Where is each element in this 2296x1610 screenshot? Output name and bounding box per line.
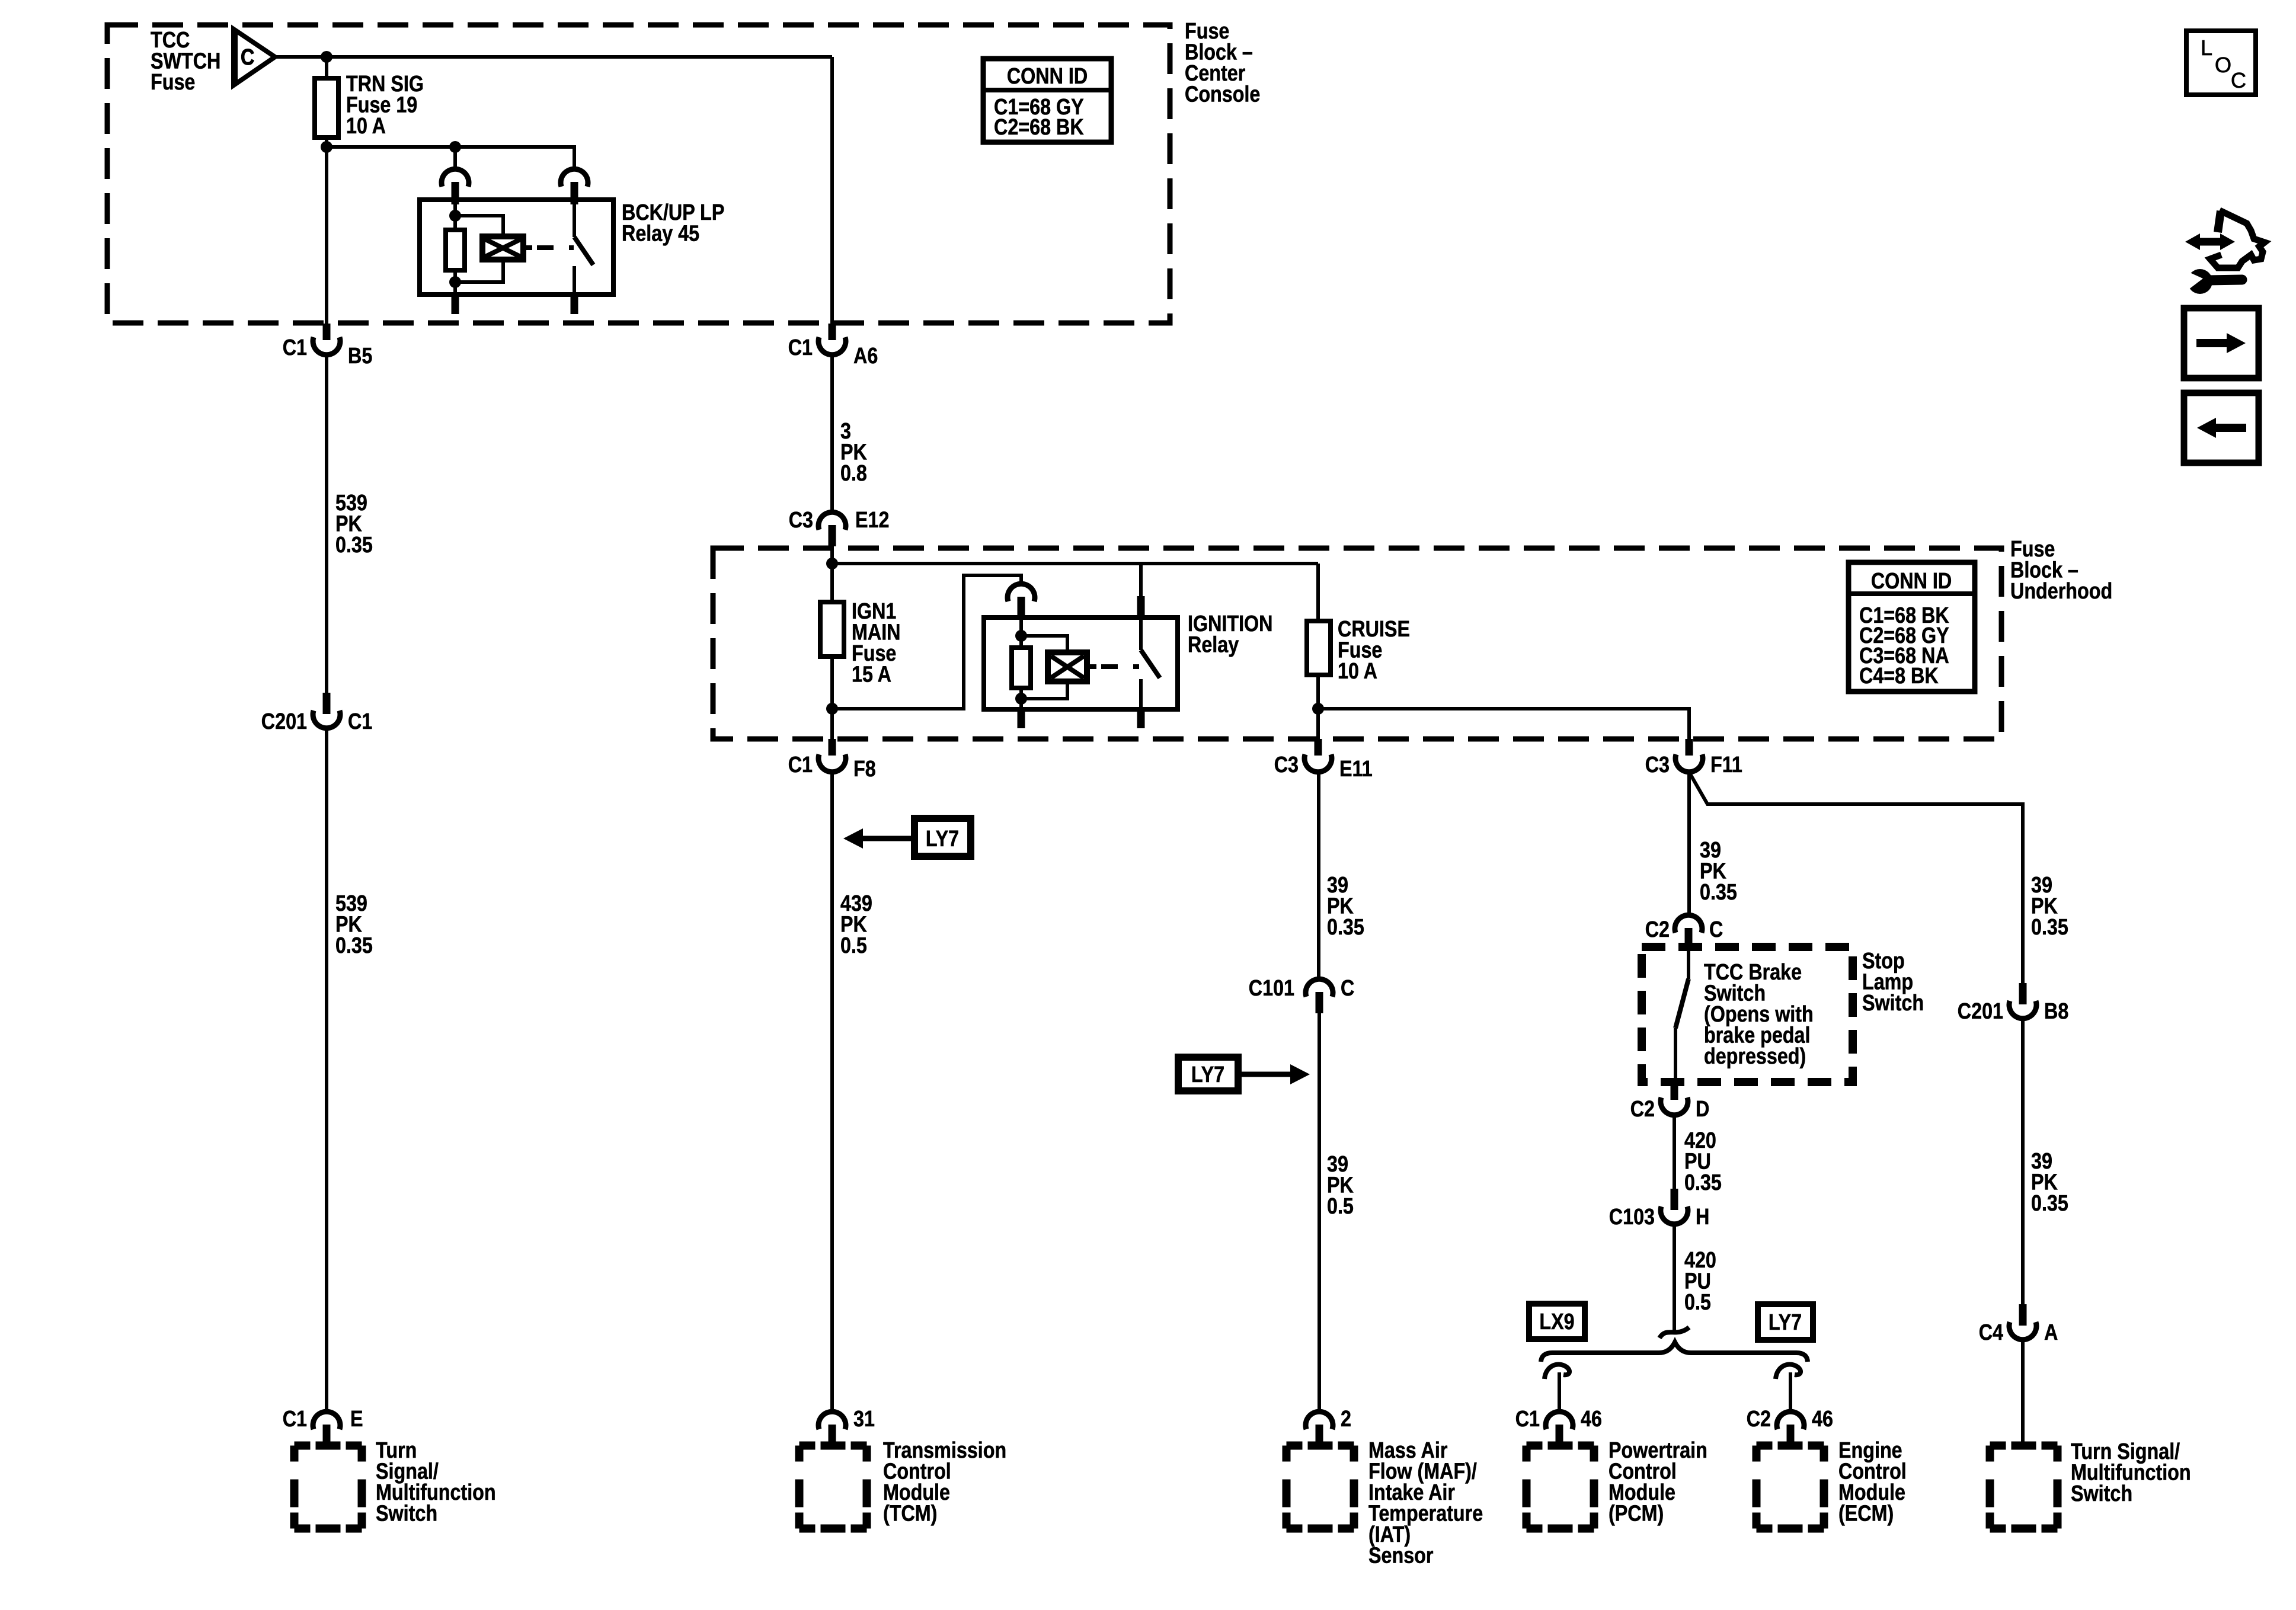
wire ignition switch pin: [1139, 564, 1143, 597]
ignition relay switch pin stub: [1137, 596, 1145, 620]
connector C3 F11: [1645, 753, 1742, 777]
wire F11 branch right: [1689, 772, 2023, 984]
LY7 arrow left: [843, 818, 971, 856]
svg-text:C3: C3: [789, 508, 813, 533]
svg-text:Switch: Switch: [2071, 1481, 2132, 1506]
svg-text:LY7: LY7: [926, 827, 959, 852]
ignition relay coil terminal: [1087, 664, 1096, 669]
svg-text:31: 31: [853, 1407, 875, 1432]
connector C1 A6: [788, 335, 878, 369]
svg-text:C: C: [1709, 917, 1723, 942]
svg-text:B5: B5: [348, 344, 372, 369]
connector 31: [818, 1407, 875, 1446]
svg-text:Relay: Relay: [1188, 632, 1239, 657]
node ignition relay bottom junction: [1015, 693, 1027, 705]
TCC SWTCH Fuse label: [151, 28, 220, 95]
connector C4 A: [1979, 1304, 2058, 1345]
wire A6 drop: [830, 57, 834, 325]
pigtail hook ECM: [1776, 1365, 1801, 1379]
node ignition relay top junction: [1015, 630, 1027, 642]
MAF IAT sensor box: [1287, 1438, 1483, 1569]
wire IGN1 fuse to F8: [830, 657, 834, 741]
wire label 539 PK 0.35 lower: [335, 891, 373, 958]
connector C201 C1: [261, 693, 372, 734]
wire pigtail PCM: [1558, 1372, 1561, 1411]
svg-text:Switch: Switch: [376, 1501, 437, 1526]
wire C4 A to turn signal switch: [2021, 1339, 2025, 1446]
svg-text:0.35: 0.35: [1684, 1170, 1722, 1195]
svg-text:0.5: 0.5: [1327, 1194, 1354, 1219]
wire label 539 PK 0.35 upper: [335, 491, 373, 558]
relay coil element: [482, 236, 523, 260]
wire E12 to IGN1 fuse: [830, 550, 834, 603]
relay coil loop wire: [455, 216, 503, 282]
svg-text:L: L: [2201, 36, 2212, 60]
svg-text:0.35: 0.35: [1327, 915, 1364, 940]
svg-text:(ECM): (ECM): [1838, 1501, 1894, 1526]
wire apex to A6 corner: [275, 55, 832, 59]
connector C201 B8: [1958, 983, 2068, 1024]
wire coil feed: [832, 575, 1021, 709]
ignition relay coil loop: [1021, 636, 1067, 699]
svg-text:D: D: [1696, 1097, 1709, 1122]
node junction underhood feed: [826, 558, 838, 569]
connector C1 B5: [283, 335, 373, 369]
connector C1 A6 border stub: [829, 324, 836, 340]
connector 2: [1306, 1407, 1351, 1446]
relay resistor branch wire: [453, 200, 457, 230]
svg-text:Switch: Switch: [1862, 991, 1924, 1016]
vehicle data link icon: [2185, 210, 2265, 294]
svg-text:E: E: [350, 1407, 363, 1432]
svg-text:C1: C1: [788, 335, 813, 360]
LX9 tag box: [1529, 1304, 1585, 1339]
svg-text:C2: C2: [1747, 1407, 1771, 1432]
stop lamp switch label: [1862, 949, 1924, 1016]
wire C201 to turn signal switch: [325, 728, 328, 1411]
TCC brake switch dashed box: [1642, 947, 1853, 1082]
connector C1 B5 border stub: [323, 324, 331, 340]
arrow right icon box: [2184, 308, 2259, 378]
svg-text:C4: C4: [1979, 1320, 2004, 1345]
svg-text:E11: E11: [1339, 757, 1373, 782]
svg-text:A: A: [2044, 1320, 2058, 1345]
ignition relay switch blade: [1141, 619, 1160, 678]
node relay top junction: [449, 210, 461, 222]
wire underhood top bus: [832, 562, 1318, 565]
turn signal multifunction switch box left: [295, 1438, 496, 1529]
wire junction to relay pins: [327, 147, 574, 171]
node junction cruise bottom: [1312, 703, 1324, 715]
svg-text:0.5: 0.5: [840, 933, 867, 958]
svg-text:C3: C3: [1274, 753, 1299, 777]
wire cruise branch: [1316, 564, 1320, 622]
pigtail hook PCM: [1544, 1365, 1569, 1379]
svg-text:15 A: 15 A: [852, 662, 891, 687]
wire pigtail ECM: [1789, 1372, 1792, 1411]
node junction relay coil branch: [449, 141, 461, 153]
wire to TRN SIG fuse: [325, 57, 328, 79]
wire label 3 PK 0.8: [840, 419, 867, 486]
fuse CRUISE 10A: [1307, 617, 1410, 684]
LY7 arrow right: [1178, 1057, 1310, 1091]
wire cruise fuse to E11: [1316, 675, 1320, 741]
connector C3 E12: [789, 508, 890, 546]
LY7 tag box bottom: [1758, 1304, 1813, 1340]
svg-text:0.35: 0.35: [335, 533, 373, 558]
splice brace: [1541, 1342, 1808, 1362]
fuse block - underhood label: [2010, 537, 2112, 604]
TCC brake switch label: [1704, 960, 1814, 1069]
svg-text:C2=68 BK: C2=68 BK: [994, 115, 1084, 140]
powertrain control module box: [1527, 1438, 1707, 1529]
ignition relay coil element: [1048, 652, 1087, 681]
svg-text:C: C: [241, 45, 254, 70]
connector C2 46: [1747, 1407, 1833, 1446]
relay switch blade: [574, 200, 593, 265]
ignition relay resistor branch: [1019, 619, 1023, 649]
svg-text:C: C: [2231, 68, 2246, 92]
svg-text:C3: C3: [1645, 753, 1670, 777]
wire TRN SIG fuse to B5: [325, 137, 328, 325]
svg-text:C201: C201: [1958, 999, 2003, 1024]
svg-text:0.35: 0.35: [1700, 880, 1737, 905]
resistor ignition relay: [1012, 648, 1031, 688]
svg-text:H: H: [1696, 1205, 1709, 1230]
svg-text:E12: E12: [855, 508, 889, 533]
relay coil pin breaker dome: [442, 169, 469, 204]
connector C103 H: [1609, 1189, 1710, 1230]
connector C3 E11 border stub: [1315, 739, 1322, 756]
ignition relay switch pin bottom stub: [1137, 709, 1145, 728]
relay coil terminal: [523, 245, 532, 250]
arrow left icon box: [2184, 393, 2259, 463]
wire H to splice brace: [1673, 1224, 1676, 1332]
engine control module box: [1757, 1438, 1907, 1529]
wire F8 to TCM: [830, 772, 834, 1411]
wire ignition resistor bottom: [1019, 688, 1023, 709]
fuse block - center console label: [1185, 19, 1260, 107]
ignition relay coil pin bottom stub: [1018, 709, 1025, 728]
wire label 39 PK 0.35 right upper: [2031, 873, 2068, 940]
wire label 39 PK 0.35 maf: [1327, 873, 1364, 940]
svg-text:0.35: 0.35: [335, 933, 373, 958]
svg-text:C1: C1: [348, 709, 372, 734]
svg-text:0.35: 0.35: [2031, 1191, 2068, 1216]
svg-text:10 A: 10 A: [1338, 659, 1377, 684]
connector C3 F11 border stub: [1686, 739, 1693, 756]
svg-text:C201: C201: [261, 709, 307, 734]
svg-text:Fuse: Fuse: [151, 70, 195, 95]
svg-text:(TCM): (TCM): [883, 1501, 937, 1526]
relay IGNITION box: [984, 617, 1178, 709]
CONN ID table - underhood: [1849, 562, 1975, 692]
wire label 39 PK 0.35 tcc: [1700, 838, 1737, 905]
node junction IGN1 fuse bottom: [826, 703, 838, 715]
svg-text:46: 46: [1812, 1407, 1833, 1432]
wire label 420 PU 0.5: [1684, 1248, 1716, 1315]
svg-text:0.35: 0.35: [2031, 915, 2068, 940]
connector C1 46: [1515, 1407, 1602, 1446]
relay pin stub switch bottom: [571, 295, 578, 314]
relay BCK/UP LP box: [420, 200, 613, 295]
wire break squiggle: [1659, 1327, 1689, 1338]
wire F11 to C2 C: [1687, 772, 1691, 914]
svg-text:Sensor: Sensor: [1368, 1543, 1434, 1568]
connector C1 F8: [788, 753, 876, 782]
TCC brake switch contact: [1675, 949, 1689, 1083]
wire B8 to C4: [2021, 1018, 2025, 1305]
turn signal multifunction switch box right: [1990, 1439, 2191, 1529]
svg-text:46: 46: [1581, 1407, 1602, 1432]
fuse block - underhood dashed box: [713, 548, 2001, 739]
node junction at TRN SIG fuse top: [321, 51, 332, 63]
ignition relay link dashes: [1101, 664, 1139, 669]
svg-text:Relay 45: Relay 45: [622, 221, 699, 246]
wire E11 to C101: [1317, 772, 1320, 978]
connector C2 D: [1630, 1082, 1710, 1122]
connector C1 F8 border stub: [829, 739, 836, 756]
CONN ID table - center console: [983, 59, 1111, 142]
svg-text:F8: F8: [853, 757, 876, 782]
svg-text:F11: F11: [1710, 753, 1742, 777]
relay switch fixed contact: [573, 266, 576, 295]
svg-text:(PCM): (PCM): [1609, 1501, 1664, 1526]
svg-text:C103: C103: [1609, 1205, 1655, 1230]
svg-text:C1: C1: [788, 753, 813, 777]
fuse IGN1 MAIN 15A: [820, 599, 901, 687]
svg-text:2: 2: [1341, 1407, 1351, 1432]
transmission control module box: [800, 1438, 1007, 1529]
connector C3 E11: [1274, 753, 1373, 782]
wire resistor bottom: [453, 270, 457, 295]
svg-text:C1: C1: [283, 335, 307, 360]
connector C101 C: [1249, 976, 1355, 1013]
node relay bottom junction: [449, 276, 461, 288]
node junction below TRN SIG fuse: [321, 141, 332, 153]
svg-text:C101: C101: [1249, 976, 1294, 1001]
svg-text:C1: C1: [1515, 1407, 1540, 1432]
TCC SWTCH fuse triangle symbol: [232, 29, 275, 85]
resistor relay BCK/UP: [446, 230, 465, 270]
svg-text:depressed): depressed): [1704, 1044, 1806, 1069]
svg-text:0.8: 0.8: [840, 461, 867, 486]
wire coil branch drop: [453, 147, 457, 171]
svg-text:CONN ID: CONN ID: [1007, 64, 1088, 89]
wire A6 to E12: [830, 354, 834, 511]
wire B5 to C201: [325, 354, 328, 694]
svg-text:C2: C2: [1645, 917, 1670, 942]
LOC icon box: [2186, 31, 2256, 95]
wire label 39 PK 0.35 right lower: [2031, 1149, 2068, 1216]
svg-text:O: O: [2215, 53, 2231, 77]
ignition relay switch fixed contact: [1139, 679, 1143, 709]
wire label 439 PK 0.5: [840, 891, 872, 958]
wire D to C103: [1673, 1115, 1676, 1190]
svg-text:B8: B8: [2044, 999, 2068, 1024]
svg-text:A6: A6: [853, 344, 878, 369]
wire C101 to MAF: [1318, 1012, 1321, 1411]
wire label 420 PU 0.35: [1684, 1128, 1722, 1195]
svg-text:C: C: [1341, 976, 1354, 1001]
wire label 39 PK 0.5: [1327, 1152, 1354, 1219]
svg-text:C4=8 BK: C4=8 BK: [1859, 664, 1939, 689]
svg-text:LY7: LY7: [1769, 1310, 1802, 1335]
svg-text:LY7: LY7: [1191, 1062, 1224, 1087]
relay mechanical link dashes: [537, 245, 574, 250]
relay IGNITION label: [1188, 612, 1272, 658]
svg-text:LX9: LX9: [1539, 1310, 1574, 1334]
relay switch pin breaker dome: [561, 169, 588, 204]
svg-text:C2: C2: [1630, 1097, 1655, 1122]
svg-text:10 A: 10 A: [346, 114, 386, 139]
svg-text:C1: C1: [283, 1407, 307, 1432]
relay pin stub coil bottom: [452, 295, 459, 314]
ignition relay coil pin dome: [1008, 584, 1035, 619]
svg-text:Console: Console: [1185, 82, 1260, 107]
svg-text:CONN ID: CONN ID: [1871, 569, 1952, 594]
wire cruise junction to F11: [1318, 709, 1689, 741]
svg-text:0.5: 0.5: [1684, 1290, 1711, 1315]
connector C2 C: [1645, 915, 1723, 949]
svg-text:Underhood: Underhood: [2010, 579, 2112, 604]
fuse TRN SIG Fuse 19: [315, 72, 424, 139]
relay BCK/UP LP label: [622, 200, 724, 247]
fuse block - center console dashed box: [107, 25, 1170, 323]
connector C1 E: [283, 1407, 363, 1446]
